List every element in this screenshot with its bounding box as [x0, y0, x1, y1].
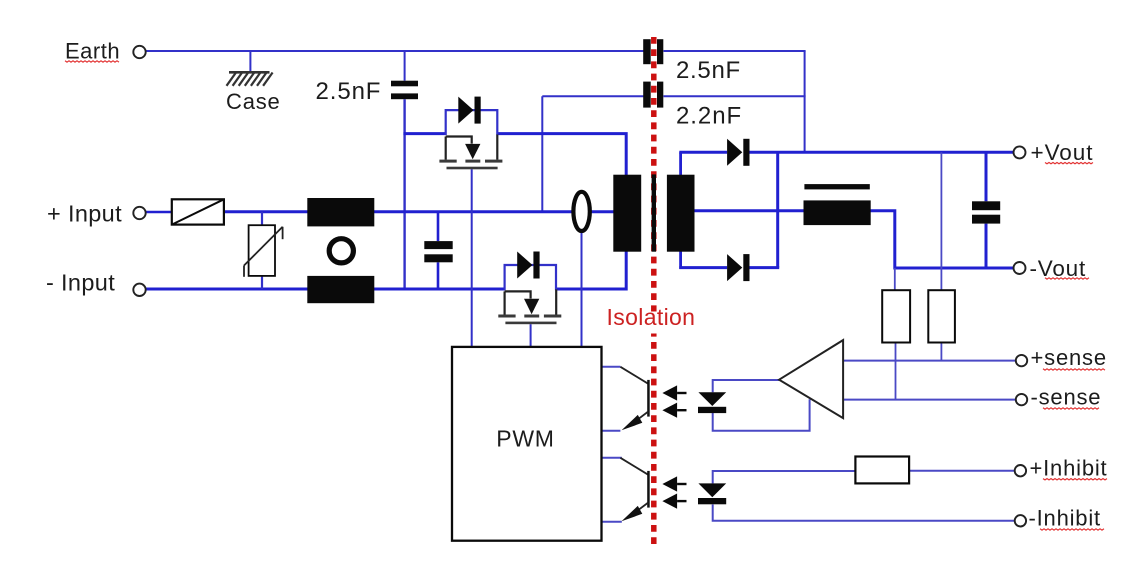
- svg-text:Case: Case: [226, 89, 281, 114]
- svg-text:+Vout: +Vout: [1031, 140, 1094, 165]
- svg-text:PWM: PWM: [496, 425, 554, 451]
- svg-text:Isolation: Isolation: [607, 304, 696, 330]
- svg-text:+ Input: + Input: [47, 200, 122, 226]
- svg-text:+sense: +sense: [1031, 345, 1107, 370]
- svg-text:Earth: Earth: [65, 38, 120, 63]
- svg-text:- Input: - Input: [46, 270, 115, 296]
- svg-text:+Inhibit: +Inhibit: [1030, 456, 1108, 481]
- svg-text:2.5nF: 2.5nF: [316, 78, 382, 105]
- svg-text:-Vout: -Vout: [1030, 256, 1087, 281]
- svg-text:-sense: -sense: [1031, 385, 1102, 410]
- svg-text:2.2nF: 2.2nF: [676, 102, 742, 129]
- svg-text:-Inhibit: -Inhibit: [1029, 506, 1101, 531]
- svg-text:2.5nF: 2.5nF: [676, 57, 741, 84]
